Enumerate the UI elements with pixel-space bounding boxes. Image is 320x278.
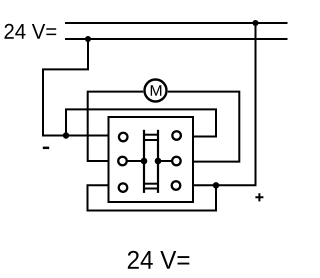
negative rail (second supply line) <box>65 38 288 40</box>
wire positive rail down to node plus and switch pin 6 right <box>193 23 256 185</box>
junction D2 on positive rail <box>252 20 258 26</box>
slider rung top 2 <box>143 139 159 141</box>
contact circle pin 2 top-right <box>172 131 181 140</box>
wire slider to mid-right contact <box>158 160 172 162</box>
slider rung top 1 <box>143 134 159 136</box>
slider rung bottom 1 <box>143 183 159 185</box>
junction D1 on negative rail <box>85 36 91 42</box>
slider rung bottom 2 <box>143 188 159 190</box>
contact circle pin 4 mid-right <box>172 157 181 166</box>
wire mid-left contact to slider <box>127 160 144 162</box>
contact circle pin 5 bottom-left <box>119 183 128 192</box>
plus polarity label <box>255 193 263 201</box>
contact circle pin 6 bottom-right <box>172 181 181 190</box>
switch S1 body <box>109 117 194 202</box>
minus polarity label <box>43 147 49 150</box>
contact circle pin 1 top-left <box>119 133 128 142</box>
slider bar right rail <box>157 130 159 193</box>
junction dot on slider left rail <box>141 158 148 165</box>
contact circle pin 3 mid-left <box>118 157 127 166</box>
wire motor right terminal to switch common right pin 4 <box>168 92 240 162</box>
junction dot on slider right rail <box>155 158 162 165</box>
label 24V top supply <box>5 24 57 39</box>
label 24V bottom <box>128 251 190 269</box>
junction node minus D3 <box>63 132 69 138</box>
wire node minus over switch to pin 2 right <box>66 109 216 136</box>
positive rail (top supply line) <box>65 22 288 24</box>
wire motor left terminal to switch common left pin 3 <box>88 92 144 161</box>
motor M letter <box>151 85 162 96</box>
wire negative rail to node minus and switch pin 1 left <box>43 39 108 136</box>
junction node plus D6 <box>213 182 219 188</box>
slider bar left rail <box>143 130 145 193</box>
motor M circle <box>145 80 167 102</box>
wire node plus under switch to pin 5 left <box>88 185 217 210</box>
